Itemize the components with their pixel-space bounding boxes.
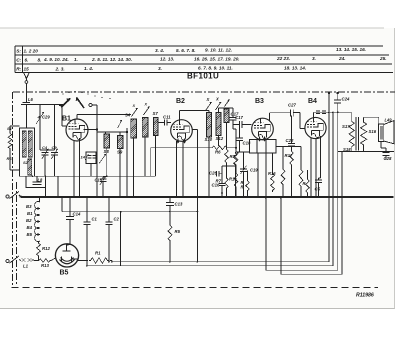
wire S6 down [144, 137, 146, 160]
bus line B plus 1 [112, 261, 329, 263]
antenna symbol [23, 72, 29, 81]
wire R5 [169, 212, 171, 224]
svg-text:C24: C24 [342, 97, 350, 102]
svg-text:B4: B4 [27, 225, 33, 230]
wire R11 [247, 171, 249, 181]
wire R18 [282, 147, 284, 169]
coil S7 [154, 118, 159, 136]
svg-text:C17: C17 [235, 115, 243, 120]
svg-text:25.: 25. [379, 56, 387, 61]
coil S2 lower [28, 159, 32, 175]
svg-text:C11: C11 [163, 115, 171, 120]
wire B2 pin b [182, 141, 184, 197]
wire box right [276, 146, 292, 148]
wire B4 pin c [320, 136, 322, 178]
svg-text:C27: C27 [288, 103, 296, 108]
IF winding S13 [224, 109, 229, 123]
wire L8 box drop [45, 188, 47, 198]
wire drop a [265, 198, 267, 270]
wire S10 down [208, 137, 210, 197]
svg-text:C2: C2 [114, 217, 120, 222]
svg-text:B1: B1 [27, 211, 33, 216]
switch arrow small [118, 120, 123, 128]
resistor R8 [234, 150, 238, 166]
wire padder down [90, 164, 92, 177]
antenna terminal [25, 81, 28, 84]
wire S7 down [155, 136, 157, 177]
wire coils top [97, 131, 120, 133]
wire C3 [108, 197, 110, 222]
table rule 3 [15, 63, 392, 65]
svg-text:C22: C22 [286, 138, 294, 143]
wire C19 stub [243, 152, 245, 169]
resistor R17 [290, 150, 294, 166]
wire switch to grid [61, 106, 63, 127]
wire speaker down [380, 142, 382, 149]
svg-text:R6: R6 [215, 150, 221, 155]
B3 diode arrows [258, 137, 261, 142]
resistor R15 [306, 178, 310, 194]
svg-text:S2: S2 [23, 160, 29, 165]
svg-text:C29: C29 [42, 115, 50, 120]
wire B4 pin a [310, 138, 312, 197]
mains switch lower [6, 260, 9, 263]
wire R16 top [272, 153, 274, 172]
svg-text:R13: R13 [41, 263, 49, 268]
switch contact dots [62, 93, 64, 95]
resistor R10 [234, 152, 238, 166]
chassis border left [11, 92, 13, 288]
wire R7 [226, 170, 228, 177]
tube B2 [171, 120, 193, 142]
wire B3 anode up [269, 113, 271, 122]
padder arrow [99, 154, 106, 164]
wire B2 avc [192, 129, 197, 131]
wire L1 [32, 259, 35, 261]
wire R1 out [110, 260, 112, 262]
svg-text:S18: S18 [343, 147, 351, 152]
wire C17 [232, 108, 234, 118]
svg-text:X: X [206, 97, 210, 102]
svg-text:B3: B3 [255, 98, 264, 105]
wire drop x120 [120, 212, 122, 266]
wire B2 anode up [179, 111, 181, 120]
chassis border left inner [16, 182, 18, 284]
wire B2 pin a [176, 141, 178, 197]
capacitor C28 [383, 152, 390, 154]
svg-text:R1: R1 [95, 251, 101, 256]
svg-text:1. 4.: 1. 4. [84, 66, 93, 71]
svg-text:L1: L1 [23, 264, 29, 269]
oscillator coil S8 [104, 134, 110, 148]
svg-text:12. 13.: 12. 13. [160, 57, 174, 62]
svg-text:9. 10. 11. 12.: 9. 10. 11. 12. [205, 48, 232, 53]
B3 base box [250, 140, 277, 154]
wire R17 down [291, 166, 293, 197]
svg-text:X: X [132, 104, 136, 108]
transformer secondary S16 [361, 120, 367, 147]
capacitor C11 [164, 120, 166, 126]
page bottom edge [0, 308, 395, 310]
svg-text:18. 13. 14.: 18. 13. 14. [284, 65, 306, 70]
svg-text:R12: R12 [42, 246, 50, 251]
wire output return [338, 151, 394, 153]
svg-text:B5: B5 [27, 232, 33, 237]
wire drop x197 [197, 212, 199, 262]
B2 cathode arrows [177, 139, 180, 144]
svg-text:C19: C19 [250, 168, 258, 173]
coil S5 [131, 119, 137, 138]
wire B3 grid [234, 124, 240, 126]
aerial coil box [20, 128, 35, 176]
wire drop x58 [57, 176, 59, 197]
wire S12 down [218, 136, 220, 146]
svg-text:C13: C13 [175, 202, 183, 207]
svg-text:S7: S7 [153, 111, 159, 116]
resistor R10b [234, 172, 238, 188]
svg-text:R6: R6 [7, 156, 13, 161]
svg-text:R5: R5 [175, 229, 181, 234]
svg-text:24.: 24. [338, 56, 346, 61]
svg-text:2. 3.: 2. 3. [55, 66, 65, 71]
transformer core [355, 117, 357, 151]
tube B3 [252, 118, 274, 140]
wire S10 top [208, 111, 210, 113]
page top edge [0, 27, 384, 29]
wire S5 down [133, 138, 135, 197]
wire rail to R6 [149, 148, 151, 176]
table left border [14, 46, 16, 73]
IF transformer coil S12 [216, 113, 221, 136]
svg-text:S:: S: [16, 48, 21, 54]
wire C9 down [54, 155, 56, 176]
wire S12 top [218, 108, 220, 113]
svg-text:S17: S17 [342, 124, 350, 129]
wire anode right [84, 129, 98, 131]
wire R8b down [226, 164, 228, 170]
svg-text:X: X [144, 103, 148, 107]
table designator divider [22, 46, 24, 73]
svg-text:6.: 6. [25, 57, 29, 62]
wire grid B2 [158, 122, 165, 124]
speaker horn [384, 121, 394, 144]
wire drop b [280, 198, 282, 274]
svg-text:13. 14. 15. 16.: 13. 14. 15. 16. [336, 47, 366, 52]
trimmer C4 [42, 152, 49, 154]
heater chain coil [35, 202, 40, 242]
wire B1 pin b [79, 138, 81, 197]
svg-text:22 23.: 22 23. [276, 56, 290, 61]
wire R10 down [235, 166, 237, 197]
waveband switch arrow a [61, 99, 70, 108]
capacitor C24 [334, 99, 341, 101]
resistor R5 [168, 224, 172, 242]
lamp L1 [22, 258, 32, 262]
svg-text:B2: B2 [26, 218, 32, 223]
wire C6 to coil box [26, 105, 28, 129]
resistor R12 [37, 242, 41, 257]
rail y176 [26, 175, 156, 177]
wire C24 [337, 93, 339, 100]
arrow X over S10 [206, 102, 212, 110]
wire C17 to R8 [233, 128, 236, 130]
arrow X over S5 [132, 108, 138, 117]
wire B4 grid [293, 112, 300, 114]
oscillator coil S9 [118, 136, 124, 149]
page right edge [394, 28, 396, 309]
coil S3 secondary [28, 131, 32, 157]
wire S13 down [226, 123, 228, 149]
arrow X over S6 [144, 107, 150, 116]
tuning gang arrow C29 [39, 105, 41, 131]
mains switch upper [6, 195, 9, 198]
capacitor C6 [23, 101, 31, 103]
chassis border top [13, 91, 395, 93]
svg-text:B2: B2 [176, 98, 185, 105]
svg-text:X: X [215, 97, 219, 102]
capacitor C3 [106, 221, 113, 223]
svg-text:1. 2 20: 1. 2 20 [24, 48, 39, 53]
wire node x97 [96, 105, 98, 197]
svg-text:C4: C4 [42, 145, 48, 150]
svg-text:R: R [303, 181, 306, 186]
wire S1 top [9, 126, 11, 132]
svg-text:8.: 8. [38, 57, 42, 62]
capacitor C27 [290, 109, 292, 116]
svg-text:C15: C15 [95, 178, 103, 183]
wire C9 top [54, 105, 56, 151]
padder box [86, 152, 96, 164]
wire switch right [92, 104, 97, 106]
wire R15 top [307, 170, 309, 178]
svg-text:R11986: R11986 [356, 293, 374, 299]
wire B4 pin b [315, 139, 317, 197]
svg-text:B3: B3 [26, 204, 32, 209]
coil S1 winding [8, 132, 12, 150]
wire B5 cathode [72, 258, 78, 260]
tube B5 [55, 244, 78, 267]
svg-text:4.: 4. [37, 115, 41, 120]
svg-text:C16: C16 [212, 183, 220, 188]
capacitor C14 [66, 216, 74, 218]
svg-text:3. 4.: 3. 4. [155, 48, 164, 53]
wire trimmer join [40, 149, 55, 151]
trimmer C9 [51, 152, 58, 154]
wire riser a [328, 93, 330, 262]
svg-text:R17: R17 [285, 153, 293, 158]
bus line B plus 2 [87, 265, 333, 267]
capacitor C26 [216, 171, 218, 177]
wire R14 [300, 147, 302, 169]
padder trimmers [88, 155, 92, 157]
svg-text:15: 15 [24, 66, 30, 71]
wire riser c [337, 103, 339, 270]
capacitor C5 [315, 179, 322, 181]
main earth bus [21, 196, 394, 198]
svg-text:C14: C14 [73, 212, 81, 217]
svg-text:C5: C5 [315, 187, 321, 192]
resistor R7 [225, 177, 228, 189]
wire S1 bottom [9, 150, 11, 170]
chassis border bottom [12, 287, 379, 289]
capacitor C22 [288, 143, 295, 145]
svg-text:B5: B5 [60, 270, 69, 277]
arrow X over S13 [225, 100, 230, 107]
filter box L8 [26, 176, 46, 187]
wire C18 [239, 127, 241, 138]
svg-text:R10: R10 [229, 177, 237, 182]
svg-text:S4: S4 [125, 113, 131, 118]
waveband switch arrow b [77, 98, 85, 109]
node 127 [126, 131, 128, 133]
tube B4 [305, 117, 326, 138]
wire heater top [39, 197, 41, 202]
table bottom rule [15, 72, 393, 74]
arrow X over S12 [216, 102, 222, 110]
wire R13 to B5 [51, 258, 56, 261]
bus line B plus 4 [281, 273, 342, 275]
capacitor C13 [166, 202, 174, 204]
wire mid rail [88, 211, 198, 213]
capacitor C16 [219, 182, 226, 184]
capacitor C19 [240, 168, 247, 170]
wire riser d [341, 152, 343, 275]
svg-text:R:: R: [16, 66, 21, 72]
wire R10b [235, 166, 237, 172]
wire C14 [69, 197, 71, 217]
svg-text:5. 6. 7. 8.: 5. 6. 7. 8. [176, 48, 196, 53]
svg-text:L8: L8 [38, 178, 44, 183]
svg-text:S12: S12 [216, 136, 224, 141]
bead marks on anode wire [316, 110, 320, 112]
svg-text:3.: 3. [312, 56, 316, 61]
wire bus drop x62 [61, 197, 63, 212]
wire B1 pin a [73, 141, 75, 197]
table top rule [15, 45, 383, 47]
table rule 2 [15, 54, 389, 56]
resistor R13 [38, 259, 51, 263]
coil S3 primary [22, 131, 26, 157]
svg-text:16. 26. 15. 17. 19. 20.: 16. 26. 15. 17. 19. 20. [194, 57, 240, 62]
svg-text:4. 9. 10. 24.: 4. 9. 10. 24. [43, 57, 69, 62]
wire secondary top [363, 117, 365, 120]
wire join lines [111, 261, 113, 262]
IF transformer coil S10 [207, 113, 212, 138]
coil S6 [142, 118, 148, 138]
wire gang down [39, 130, 41, 150]
svg-text:R: R [241, 185, 244, 190]
capacitor C15 [100, 178, 107, 180]
bus line B plus 3 [266, 269, 338, 271]
wire C2 [86, 197, 88, 222]
resistor R6 [211, 146, 228, 150]
wire primary top [351, 112, 353, 119]
wire C13 [169, 197, 171, 203]
switch terminal [89, 104, 92, 107]
wire transformer bottom [342, 151, 352, 153]
svg-text:3.: 3. [158, 66, 162, 71]
wire S6 bottom join [144, 160, 146, 176]
speaker voice coil [379, 124, 384, 142]
wire B1 top cap [76, 115, 78, 120]
wire C5 [319, 177, 321, 179]
transformer primary S17 [349, 119, 354, 149]
wire secondary bottom [363, 147, 365, 152]
resistor R16 [271, 172, 275, 192]
wire B4 anode [313, 112, 315, 117]
svg-text:1.: 1. [74, 57, 78, 62]
svg-text:B4: B4 [308, 98, 317, 105]
bus junction dots [38, 196, 40, 198]
capacitor C18 [236, 137, 243, 139]
wire primary bottom [351, 149, 353, 152]
wire C22 stub [291, 116, 293, 144]
svg-text:2. 5. 11. 12. 14. 30.: 2. 5. 11. 12. 14. 30. [91, 57, 132, 62]
wire cluster top [222, 165, 236, 167]
svg-text:6. 7. 8. 9. 10. 11.: 6. 7. 8. 9. 10. 11. [198, 66, 233, 71]
wire R8 top [228, 147, 236, 149]
node top border [328, 92, 330, 94]
capacitor C17 [230, 117, 237, 119]
resistor R14 [299, 168, 303, 188]
svg-text:C1: C1 [92, 217, 98, 222]
svg-text:C:: C: [16, 57, 21, 63]
node dot 97 [96, 128, 98, 130]
capacitor C17b [239, 121, 241, 128]
resistor R1 [89, 258, 109, 264]
svg-text:S16: S16 [369, 129, 377, 134]
wire coil S9 down [119, 149, 121, 198]
capacitor C2 [84, 221, 91, 223]
wire riser b [332, 112, 334, 265]
wire antenna down [25, 83, 27, 102]
resistor R18 [281, 168, 285, 186]
wire C4 down [44, 155, 46, 176]
svg-text:L6: L6 [28, 97, 34, 102]
svg-text:C28: C28 [384, 156, 392, 161]
tube B1 [66, 119, 88, 141]
svg-text:BF101U: BF101U [187, 72, 219, 81]
svg-text:14: 14 [81, 155, 86, 160]
wire top rail [21, 104, 64, 106]
wire B3 pins [256, 140, 258, 153]
resistor R11 [246, 180, 250, 191]
wire heater R12 [39, 241, 40, 242]
resistor R8b [225, 148, 229, 164]
wire coil S8 down [106, 148, 108, 176]
